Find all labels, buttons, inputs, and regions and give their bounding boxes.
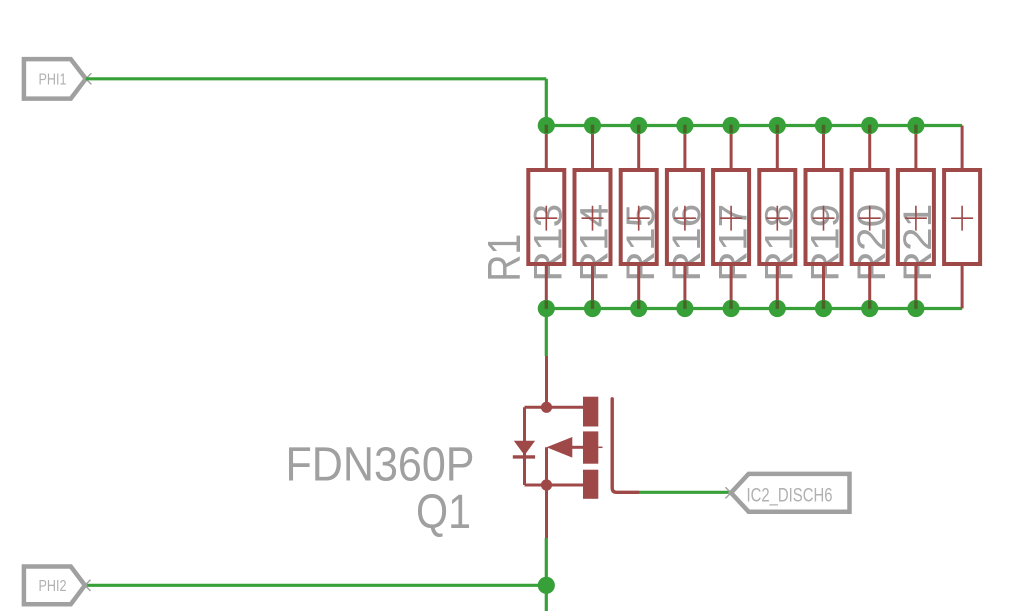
resistor R21 [898,126,934,309]
svg-text:PHI2: PHI2 [39,578,67,595]
junction top rail / R17 [723,117,740,134]
svg-text:PHI1: PHI1 [39,71,67,88]
junction bottom rail / R21 [907,300,924,317]
resistor R17 [713,126,749,309]
junction top rail / R16 [676,117,693,134]
svg-text:R1: R1 [478,234,530,282]
junction source node [541,479,552,490]
wire top rail [546,124,962,127]
wire gate to IC2_DISCH6 [638,491,731,494]
junction bottom rail / R15 [630,300,647,317]
junction top rail / R21 [907,117,924,134]
junction drain node [541,402,552,413]
junction top rail / R14 [584,117,601,134]
wire transistor source to PHI2 net [545,538,548,611]
resistor R22 [944,126,980,309]
body diode [514,441,535,456]
wire bottom rail to transistor drain [545,309,548,357]
gate line [612,399,638,493]
svg-text:FDN360P: FDN360P [286,439,475,492]
net flag PHI1 [24,59,92,99]
resistor R19 [806,126,842,309]
junction bottom rail / R17 [723,300,740,317]
wire PHI2 horizontal [85,584,546,587]
junction top rail / R18 [769,117,786,134]
svg-text:Q1: Q1 [416,486,471,539]
resistor R14 [575,126,611,309]
junction bottom rail / R16 [676,300,693,317]
svg-text:IC2_DISCH6: IC2_DISCH6 [747,486,833,507]
channel stub drain [583,397,598,427]
source pin [545,485,548,538]
wire PHI1 vertical drop [545,79,548,126]
junction top rail / R20 [861,117,878,134]
top bar wire [525,406,584,409]
junction bottom rail / R19 [815,300,832,317]
diode branch vertical [523,407,526,485]
resistor R15 [621,126,657,309]
junction top rail / R19 [815,117,832,134]
wire bottom rail [546,307,962,310]
junction bottom rail / R20 [861,300,878,317]
resistor R13 [528,126,564,309]
drain pin [545,356,548,407]
resistor R16 [667,126,703,309]
substrate tick [598,446,602,448]
transistor Q1 FDN360P (P-MOSFET with body diode) [513,356,638,538]
net flag IC2_DISCH6 [725,474,849,512]
junction top rail / R15 [630,117,647,134]
channel stub bulk [583,431,598,463]
junction top rail / R13 [538,117,555,134]
bottom bar wire [525,484,584,487]
resistor R20 [852,126,888,309]
wire PHI1 horizontal [86,77,547,80]
channel stub source [583,470,598,499]
junction bottom rail / R18 [769,300,786,317]
bulk tie vertical [545,447,548,485]
resistor R18 [759,126,795,309]
junction bottom rail / R14 [584,300,601,317]
junction bottom rail / R13 [538,300,555,317]
junction PHI2 node [538,577,555,594]
bulk arrow [547,437,573,458]
net flag PHI2 [24,567,91,605]
